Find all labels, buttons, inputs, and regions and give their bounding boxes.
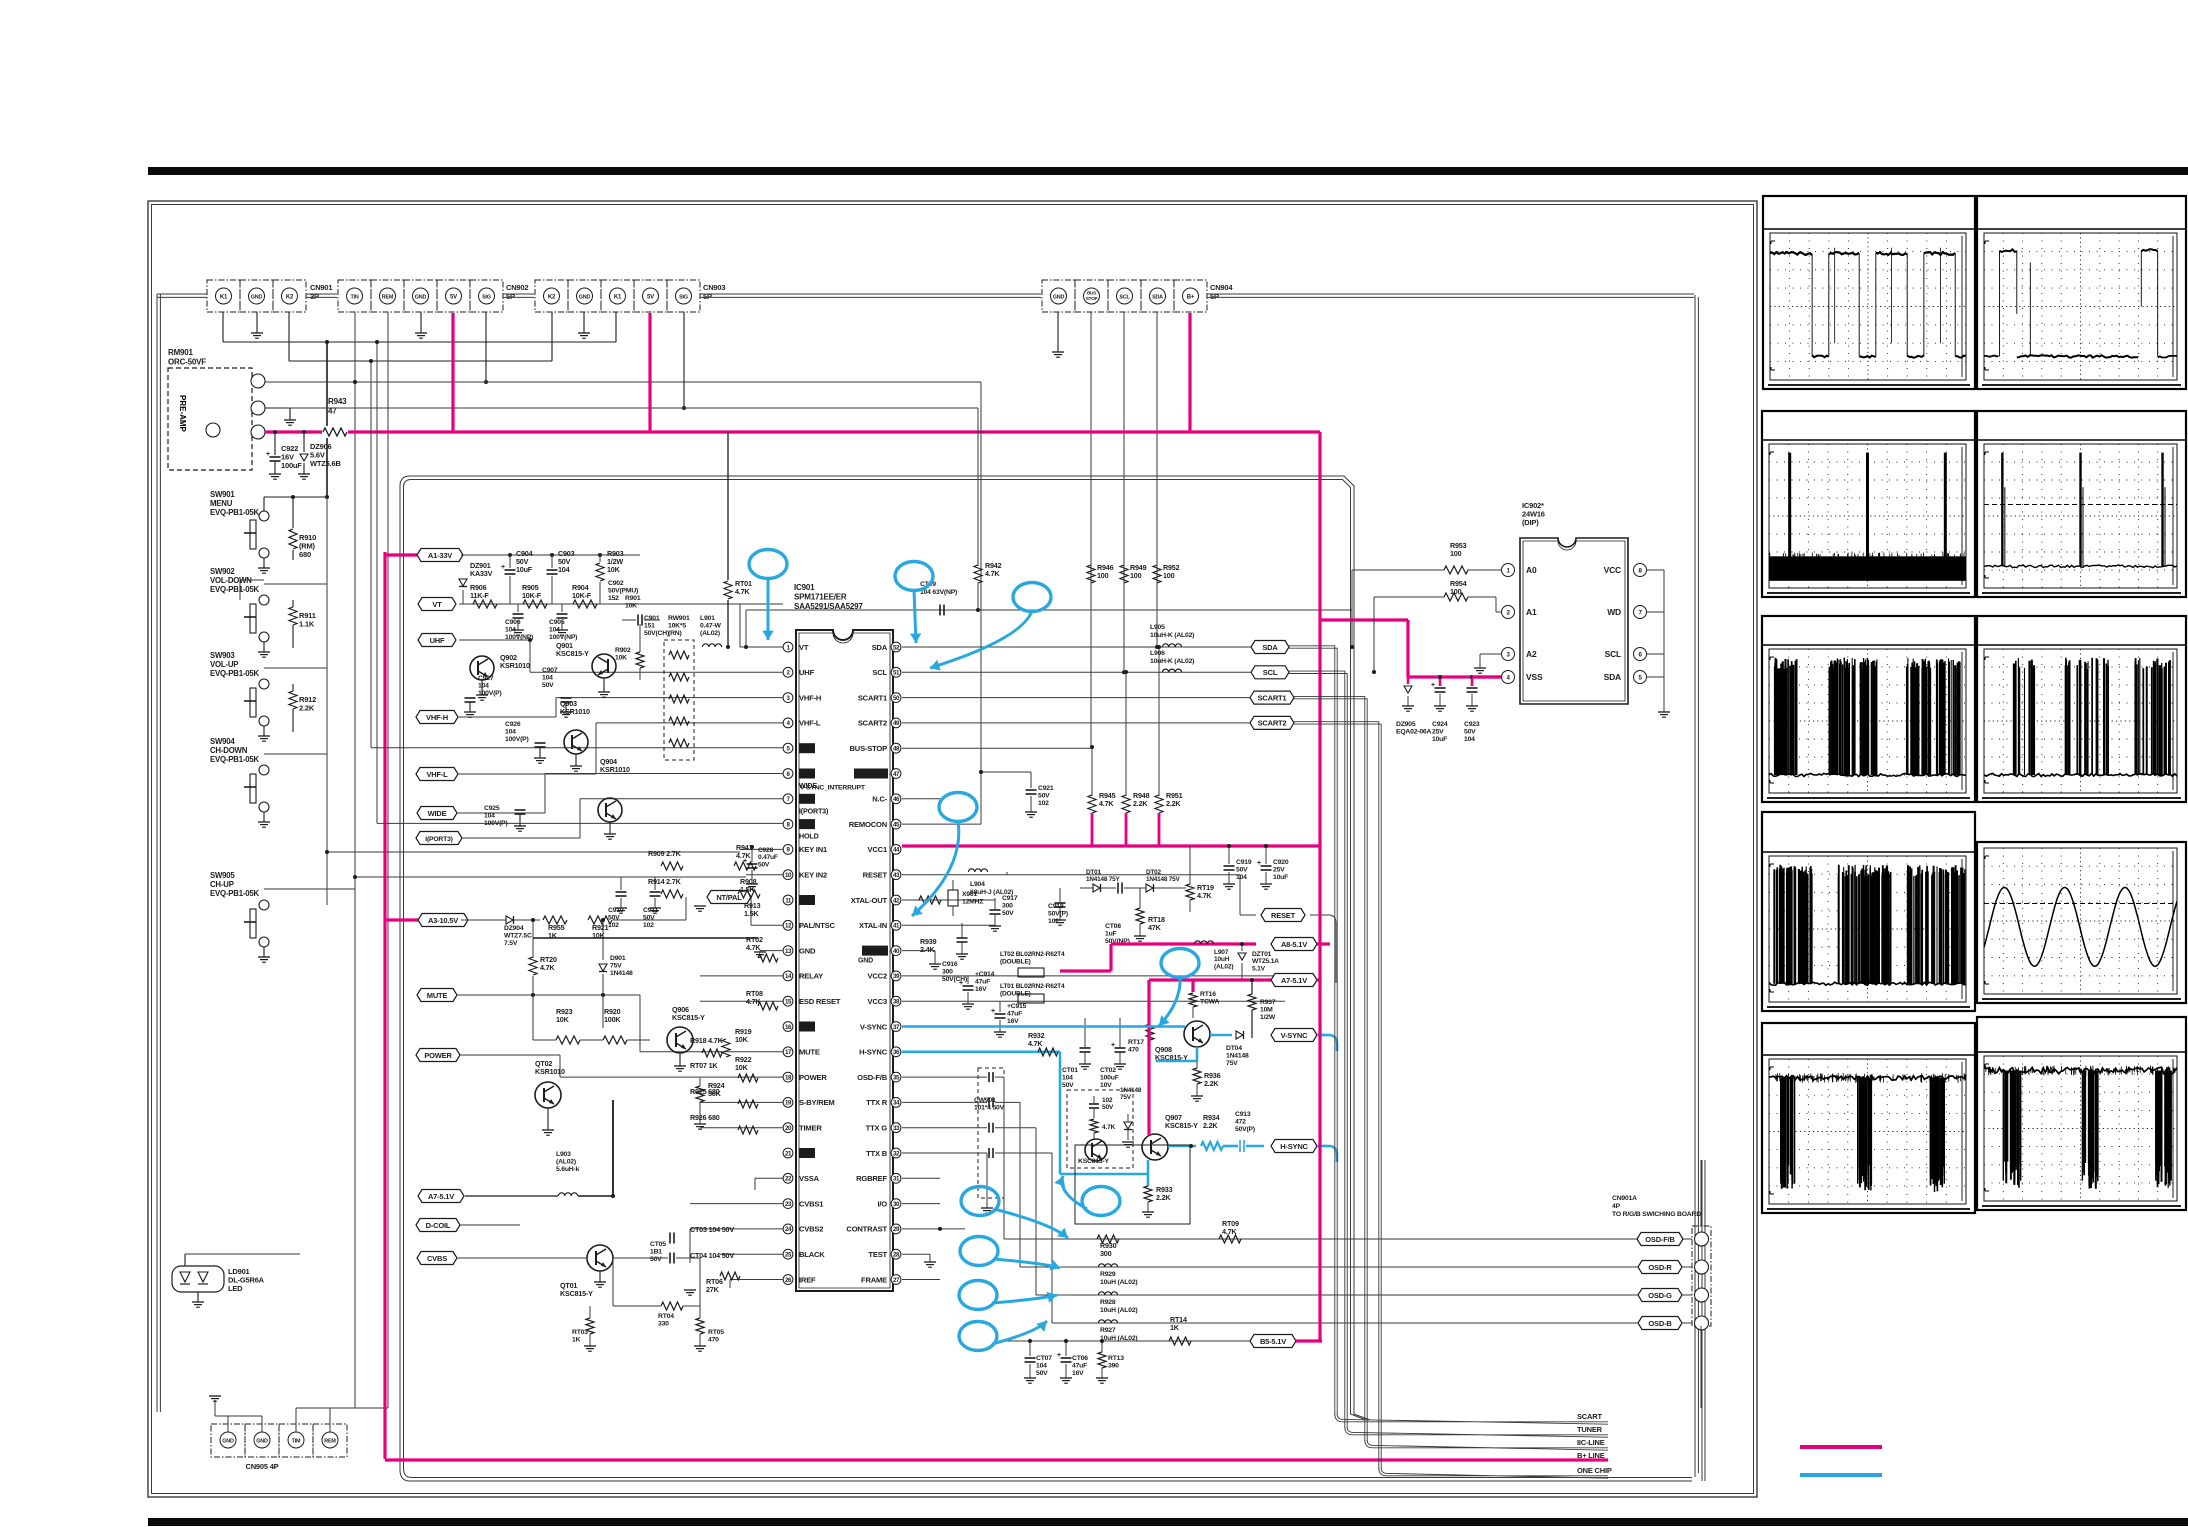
flag V-SYNC xyxy=(1271,1029,1317,1042)
svg-text:100: 100 xyxy=(1130,571,1142,580)
svg-text:L904: L904 xyxy=(970,881,985,888)
svg-text:+: + xyxy=(1111,1042,1115,1049)
pin 6 port xyxy=(783,769,793,779)
resistor R933 xyxy=(1144,1186,1152,1202)
wire A2 gnd xyxy=(1480,653,1501,655)
svg-text:GND: GND xyxy=(251,294,263,300)
svg-text:A7-5.1V: A7-5.1V xyxy=(428,1192,454,1201)
svg-text:C910: C910 xyxy=(608,907,624,914)
wire keyin1 xyxy=(740,848,783,850)
svg-text:POWER: POWER xyxy=(424,1051,452,1060)
svg-text:MUTE: MUTE xyxy=(799,1048,820,1057)
svg-text:DT01: DT01 xyxy=(1086,869,1101,876)
svg-text:472: 472 xyxy=(1235,1119,1246,1126)
svg-text:CN902: CN902 xyxy=(506,283,528,292)
svg-text:10M: 10M xyxy=(1260,1007,1273,1014)
wire UHF net xyxy=(459,639,530,641)
wire IC902 right xyxy=(1663,570,1665,677)
svg-text:PRE-AMP: PRE-AMP xyxy=(178,395,187,433)
svg-text:50V: 50V xyxy=(1038,793,1050,800)
transistor QT01 xyxy=(587,1245,613,1271)
pin 21 port xyxy=(783,1148,793,1158)
svg-text:POWER: POWER xyxy=(799,1073,827,1082)
wire B5 row xyxy=(1004,1340,1257,1342)
svg-text:10K: 10K xyxy=(556,1015,570,1024)
pin 40 GND xyxy=(891,946,901,956)
svg-text:+: + xyxy=(991,1008,995,1015)
svg-text:104: 104 xyxy=(1062,1075,1073,1082)
resistor R904 xyxy=(573,600,597,608)
flag SCL xyxy=(1251,666,1289,679)
resistor R937 xyxy=(1251,980,1253,994)
wire IPORT3 net xyxy=(462,837,580,839)
svg-text:+: + xyxy=(501,564,505,571)
svg-text:TIM: TIM xyxy=(292,1439,301,1445)
wire rgbref xyxy=(902,1177,940,1179)
pin 3 A2 xyxy=(1502,648,1515,661)
pin 46 N.C- xyxy=(891,794,901,804)
svg-text:R925 680: R925 680 xyxy=(690,1087,720,1096)
wire VT net xyxy=(459,603,783,605)
svg-text:ESD RESET: ESD RESET xyxy=(799,997,841,1006)
flag A7-5.1V left xyxy=(418,1190,464,1203)
pin 10 KEY IN2 xyxy=(783,870,793,880)
capacitor C919 xyxy=(1228,846,1230,864)
pin 31 RGBREF xyxy=(891,1173,901,1183)
wire nc xyxy=(902,798,940,800)
svg-text:4.7K: 4.7K xyxy=(985,569,1000,578)
wire contrast xyxy=(902,1228,965,1230)
svg-text:RGBREF: RGBREF xyxy=(856,1174,887,1183)
svg-text:VHF-H: VHF-H xyxy=(426,713,448,722)
wire OSD row2 xyxy=(1020,1266,1692,1268)
svg-text:RT13: RT13 xyxy=(1108,1355,1124,1362)
pin 17 MUTE xyxy=(783,1047,793,1057)
capacitor C904 xyxy=(509,555,511,568)
svg-text:K1: K1 xyxy=(220,294,228,300)
svg-text:10uH-K (AL02): 10uH-K (AL02) xyxy=(1150,658,1194,665)
svg-text:C907: C907 xyxy=(542,667,558,674)
capacitor C911 xyxy=(654,877,656,890)
svg-text:EVQ-PB1-05K: EVQ-PB1-05K xyxy=(210,889,259,898)
wire bus CN904 down right side xyxy=(1694,295,1696,1477)
resistor R942 xyxy=(977,408,979,566)
resistor R952 xyxy=(1153,565,1161,583)
diode DT01 xyxy=(1093,884,1100,892)
svg-text:WD: WD xyxy=(1607,607,1621,617)
wire xtal cluster xyxy=(902,899,995,901)
svg-text:I(PORT3): I(PORT3) xyxy=(425,836,452,843)
svg-text:SCART2: SCART2 xyxy=(858,719,887,728)
svg-text:V-SYNC: V-SYNC xyxy=(860,1022,888,1031)
wire mute row xyxy=(531,993,535,997)
diode DT04 xyxy=(1236,1031,1243,1039)
wire switch rail xyxy=(264,496,327,498)
resistor R910 xyxy=(292,497,294,528)
svg-text:CN901A: CN901A xyxy=(1612,1195,1637,1202)
resistor RT20 xyxy=(532,920,534,958)
wire dt row xyxy=(1080,887,1093,889)
svg-text:V-SYNC_INTERRUPT: V-SYNC_INTERRUPT xyxy=(800,785,866,792)
inductor L907 xyxy=(1194,941,1213,944)
wire vssa xyxy=(755,1177,783,1179)
svg-text:SCART: SCART xyxy=(1577,1412,1602,1421)
svg-text:GND: GND xyxy=(415,294,427,300)
svg-text:102: 102 xyxy=(1102,1097,1113,1104)
svg-text:SDA: SDA xyxy=(1262,643,1278,652)
resistor RT01 xyxy=(727,432,729,580)
svg-text:(DOUBLE): (DOUBLE) xyxy=(1000,959,1031,966)
svg-text:TTX R: TTX R xyxy=(866,1098,888,1107)
svg-text:1/2W: 1/2W xyxy=(1260,1014,1276,1021)
svg-text:5.1V: 5.1V xyxy=(1252,965,1266,972)
svg-text:CONTRAST: CONTRAST xyxy=(846,1225,887,1234)
resistor in box xyxy=(1090,1119,1098,1133)
capacitor C914 xyxy=(963,985,974,987)
svg-text:UHF: UHF xyxy=(799,668,815,677)
inductor R928 xyxy=(1098,1292,1117,1295)
wire power net xyxy=(460,1054,560,1056)
svg-text:SIG: SIG xyxy=(679,294,688,300)
svg-text:REMOCON: REMOCON xyxy=(849,820,887,829)
svg-text:SW905: SW905 xyxy=(210,871,235,880)
wire remocon line y382 xyxy=(258,381,981,383)
resistor R923 xyxy=(556,1036,580,1044)
pin 11 port xyxy=(783,895,793,905)
wire iref xyxy=(730,1279,783,1281)
resistor R906 xyxy=(473,600,497,608)
flag A1-33V xyxy=(417,549,463,562)
svg-text:50V(P): 50V(P) xyxy=(1235,1126,1255,1133)
wire left edge bus xyxy=(156,294,158,1412)
svg-text:50V: 50V xyxy=(758,861,770,868)
flag NT/PAL xyxy=(707,891,751,904)
wire cvbs flag xyxy=(457,1257,586,1259)
flag POWER xyxy=(416,1049,460,1062)
pin 15 ESD RESET xyxy=(783,996,793,1006)
capacitor C921 xyxy=(1030,772,1032,788)
magenta VCC1 rail xyxy=(902,844,1320,847)
svg-text:C919: C919 xyxy=(1236,859,1252,866)
wire key matrix xyxy=(326,497,328,905)
svg-text:50V: 50V xyxy=(1002,910,1014,917)
wire sbyrem xyxy=(700,1101,783,1103)
magenta A8 right stub xyxy=(1317,942,1330,945)
wire mute net xyxy=(457,994,640,996)
flag OSD-F/B xyxy=(1637,1233,1683,1246)
magenta q907 top xyxy=(1147,1131,1150,1135)
transistor QT02 xyxy=(535,1082,561,1108)
svg-text:R902: R902 xyxy=(615,647,631,654)
pin 22 VSSA xyxy=(783,1173,793,1183)
cyan callout ellipse xyxy=(895,562,933,591)
pin 5 SDA xyxy=(1634,671,1647,684)
wire io xyxy=(902,1203,940,1205)
svg-text:CN905 4P: CN905 4P xyxy=(245,1462,278,1471)
transistor Q908 xyxy=(1184,1021,1210,1047)
svg-text:GND: GND xyxy=(799,946,816,955)
wire sig line y408 xyxy=(258,407,978,409)
svg-text:C926: C926 xyxy=(505,721,521,728)
cyan q908 lower xyxy=(1196,1047,1199,1061)
svg-text:LT02 BL02RN2-R62T4: LT02 BL02RN2-R62T4 xyxy=(1000,951,1065,958)
wire gnd40 xyxy=(902,950,935,952)
cyan callout ellipse xyxy=(939,793,977,822)
svg-text:27K: 27K xyxy=(706,1285,720,1294)
svg-text:104: 104 xyxy=(1036,1363,1047,1370)
svg-text:KSR1010: KSR1010 xyxy=(535,1067,565,1076)
svg-text:KEY IN2: KEY IN2 xyxy=(799,871,827,880)
svg-text:CT07: CT07 xyxy=(1036,1355,1052,1362)
inductor L905 xyxy=(1162,644,1181,647)
svg-text:47K: 47K xyxy=(1148,923,1162,932)
wire OSD row3 xyxy=(1036,1294,1692,1296)
svg-text:47uF: 47uF xyxy=(975,979,990,986)
pin 12 PAL/NTSC xyxy=(783,920,793,930)
flag VT xyxy=(418,598,456,611)
svg-text:CT08: CT08 xyxy=(1105,923,1121,930)
cyan callout ellipse xyxy=(961,1187,999,1216)
resistor R912 xyxy=(292,684,294,691)
resistor RT16 xyxy=(1189,993,1197,1007)
flag VHF-L xyxy=(416,768,458,781)
svg-text:KSC815-Y: KSC815-Y xyxy=(556,649,589,658)
cyan R933 stub xyxy=(1147,1174,1150,1186)
wire remocon xyxy=(902,823,981,825)
cyan C913 xyxy=(1239,1140,1241,1152)
wire SIG CN903 drop xyxy=(683,312,685,408)
magenta A3 stub xyxy=(385,918,418,921)
svg-text:75V: 75V xyxy=(610,963,622,970)
wire y610 row xyxy=(746,609,1352,611)
svg-text:68uH-J (AL02): 68uH-J (AL02) xyxy=(970,889,1013,896)
magenta VSS wire xyxy=(1472,675,1501,678)
svg-text:104: 104 xyxy=(505,729,516,736)
svg-text:4.7K: 4.7K xyxy=(735,587,750,596)
legend cyan line xyxy=(1800,1473,1882,1477)
svg-text:50V: 50V xyxy=(1464,729,1476,736)
pin 30 I/O xyxy=(891,1199,901,1209)
zener DZT01 xyxy=(1241,944,1243,951)
svg-text:1K: 1K xyxy=(572,1337,581,1344)
wire relay xyxy=(700,975,783,977)
svg-text:A0: A0 xyxy=(1526,565,1537,575)
svg-text:104: 104 xyxy=(1464,736,1475,743)
wire bottom bus rows xyxy=(1335,1414,1608,1424)
svg-text:(AL02): (AL02) xyxy=(700,630,720,637)
svg-text:VHF-H: VHF-H xyxy=(799,693,821,702)
wire frame xyxy=(902,1279,940,1281)
svg-text:CT05: CT05 xyxy=(650,1241,666,1248)
capacitor C920 xyxy=(1265,846,1267,864)
svg-text:OSD-G: OSD-G xyxy=(1648,1291,1672,1300)
svg-text:680: 680 xyxy=(299,550,311,559)
resistor RT19 xyxy=(1186,884,1194,900)
svg-text:+: + xyxy=(959,980,963,987)
svg-text:+: + xyxy=(1057,1352,1061,1359)
svg-text:4.7K: 4.7K xyxy=(1099,799,1114,808)
svg-text:100V(P): 100V(P) xyxy=(478,690,502,697)
svg-text:DZ904: DZ904 xyxy=(504,925,524,932)
svg-text:10uH (AL02): 10uH (AL02) xyxy=(1100,1307,1137,1314)
capacitor C905 xyxy=(561,604,563,612)
zener DZ906 xyxy=(302,430,306,434)
svg-text:WIDE: WIDE xyxy=(428,809,447,818)
cyan R934 xyxy=(1201,1142,1223,1150)
wire CN905 REM xyxy=(329,1408,331,1432)
connector CN903 5P xyxy=(535,280,568,312)
pin 29 CONTRAST xyxy=(891,1224,901,1234)
pin 18 POWER xyxy=(783,1072,793,1082)
svg-text:100V(P): 100V(P) xyxy=(484,820,508,827)
svg-text:104: 104 xyxy=(542,675,553,682)
svg-text:N.C-: N.C- xyxy=(872,795,887,804)
svg-text:10K-F: 10K-F xyxy=(522,591,542,600)
diode D901 xyxy=(602,920,604,960)
svg-text:B+ LINE: B+ LINE xyxy=(1577,1451,1605,1460)
resistor R943 xyxy=(322,426,348,438)
svg-text:VCC3: VCC3 xyxy=(868,997,887,1006)
wire reset right xyxy=(1310,914,1330,916)
svg-text:11K-F: 11K-F xyxy=(470,591,489,600)
wire SDA vertical xyxy=(1156,312,1158,647)
svg-text:(RN): (RN) xyxy=(668,630,682,637)
svg-text:ORC-50VF: ORC-50VF xyxy=(168,358,206,367)
wire SCL vertical xyxy=(1123,312,1125,672)
svg-text:RW901: RW901 xyxy=(668,615,690,622)
svg-text:A7-5.1V: A7-5.1V xyxy=(1281,976,1307,985)
resistor R948 xyxy=(1125,672,1127,796)
magenta B+ vertical xyxy=(1318,432,1321,1341)
svg-text:R929: R929 xyxy=(1100,1271,1116,1278)
pin 7 port xyxy=(783,794,793,804)
flag MUTE xyxy=(417,989,457,1002)
svg-text:5P: 5P xyxy=(506,292,515,301)
svg-text:ONE CHIP: ONE CHIP xyxy=(1577,1466,1612,1475)
svg-text:50V: 50V xyxy=(1236,867,1248,874)
zener DZ904 xyxy=(506,916,513,924)
wire cn901a top xyxy=(1700,1160,1702,1226)
svg-text:VHF-L: VHF-L xyxy=(426,770,448,779)
svg-text:H-SYNC: H-SYNC xyxy=(859,1048,888,1057)
svg-text:OSD-R: OSD-R xyxy=(1648,1263,1672,1272)
flag UHF xyxy=(418,634,456,647)
inductor R927 xyxy=(1098,1320,1117,1323)
svg-text:H-SYNC: H-SYNC xyxy=(1280,1142,1308,1151)
capacitor CT08 xyxy=(1117,883,1119,894)
capacitor C918 xyxy=(1055,902,1066,904)
svg-text:K2: K2 xyxy=(286,294,294,300)
svg-text:SCL: SCL xyxy=(1119,294,1130,300)
wire scl to eeprom xyxy=(1372,670,1376,674)
flag WIDE xyxy=(417,807,457,820)
svg-text:1N4148: 1N4148 xyxy=(1120,1087,1142,1094)
svg-text:RM901: RM901 xyxy=(168,348,194,357)
svg-text:VT: VT xyxy=(799,643,809,652)
svg-text:SW903: SW903 xyxy=(210,651,235,660)
wire VHF-L net xyxy=(458,773,596,775)
transistor Q904 xyxy=(598,798,622,822)
svg-text:MENU: MENU xyxy=(210,499,233,508)
resistor R911 xyxy=(292,600,294,607)
svg-text:+: + xyxy=(1257,860,1261,867)
svg-text:D901: D901 xyxy=(610,955,626,962)
svg-text:FRAME: FRAME xyxy=(861,1275,887,1284)
wire SCL row xyxy=(902,671,1253,673)
svg-text:RESET: RESET xyxy=(1271,911,1296,920)
svg-text:RELAY: RELAY xyxy=(799,972,823,981)
svg-text:1.5K: 1.5K xyxy=(744,909,759,918)
svg-text:IREF: IREF xyxy=(799,1275,816,1284)
wire pin5 long xyxy=(370,361,372,748)
svg-text:STOP: STOP xyxy=(1086,296,1098,301)
cyan callout ellipse xyxy=(959,1322,997,1351)
svg-text:C916: C916 xyxy=(942,961,958,968)
svg-text:100V(NP): 100V(NP) xyxy=(549,634,577,641)
svg-text:KSC815-Y: KSC815-Y xyxy=(1078,1158,1110,1165)
svg-text:151: 151 xyxy=(644,623,655,630)
svg-text:WTZ5.6B: WTZ5.6B xyxy=(310,459,341,468)
pin 47 port xyxy=(891,769,901,779)
svg-text:2.2K: 2.2K xyxy=(299,704,315,713)
pin 6 SCL xyxy=(1634,648,1647,661)
box q907 cluster xyxy=(1075,1145,1190,1224)
svg-text:SDA: SDA xyxy=(1152,294,1163,300)
svg-text:0.47uF: 0.47uF xyxy=(758,854,778,861)
svg-text:CT01: CT01 xyxy=(1062,1067,1078,1074)
svg-text:SCART1: SCART1 xyxy=(1258,693,1287,702)
svg-text:BUS-STOP: BUS-STOP xyxy=(850,744,888,753)
svg-text:B5-5.1V: B5-5.1V xyxy=(1260,1337,1286,1346)
resistor RT09 xyxy=(1219,1235,1241,1243)
svg-text:TUNER: TUNER xyxy=(1577,1425,1603,1434)
connector CN905 xyxy=(211,1424,245,1457)
svg-text:CH-UP: CH-UP xyxy=(210,880,234,889)
svg-text:VCC2: VCC2 xyxy=(868,972,887,981)
svg-text:(DOUBLE): (DOUBLE) xyxy=(1000,991,1031,998)
svg-text:TCWA: TCWA xyxy=(1200,999,1220,1006)
svg-text:3P: 3P xyxy=(310,292,319,301)
wire black xyxy=(720,1253,783,1255)
wire test xyxy=(902,1253,930,1255)
transistor Q906a xyxy=(1085,1139,1107,1161)
outer page border xyxy=(148,201,1757,1497)
svg-text:C917: C917 xyxy=(1002,895,1018,902)
svg-text:1N4148 75V: 1N4148 75V xyxy=(1146,876,1180,883)
wire SDA row xyxy=(902,646,1253,648)
svg-text:75V: 75V xyxy=(1226,1060,1238,1067)
pin 20 TIMER xyxy=(783,1123,793,1133)
wire A7 bold xyxy=(612,1100,614,1196)
flag A3-10.5V xyxy=(418,914,468,927)
wire CN905 TIM xyxy=(295,1408,297,1432)
svg-text:100: 100 xyxy=(1163,571,1175,580)
wire A1 rail xyxy=(461,554,640,556)
cyan callout ellipse xyxy=(1013,583,1051,612)
crystal X901 xyxy=(948,890,958,906)
svg-text:C927: C927 xyxy=(478,675,494,682)
flag H-SYNC xyxy=(1271,1140,1317,1153)
svg-text:GND: GND xyxy=(256,1439,268,1445)
svg-text:SCL: SCL xyxy=(1605,649,1621,659)
svg-text:EVQ-PB1-05K: EVQ-PB1-05K xyxy=(210,508,259,517)
svg-text:TEST: TEST xyxy=(868,1250,887,1259)
wire keyin rows xyxy=(327,851,740,853)
flag A7-5.1V right xyxy=(1271,974,1317,987)
pin 33 TTX G xyxy=(891,1123,901,1133)
magenta bottom bus xyxy=(385,1458,1608,1461)
svg-text:RT16: RT16 xyxy=(1200,991,1216,998)
